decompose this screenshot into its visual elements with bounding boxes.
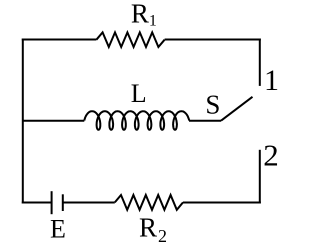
resistor R2 [115,195,183,210]
svg-text:R1: R1 [131,0,157,29]
svg-text:R2: R2 [139,213,167,247]
wire left vertical [22,39,24,204]
wire top left segment [22,39,97,41]
resistor R1 [96,32,164,47]
svg-text:2: 2 [263,137,279,172]
inductor L [84,111,189,130]
wire bottom right segment [183,202,261,204]
battery E plate long [51,191,53,214]
wire bottom left segment [22,202,52,204]
svg-text:L: L [131,79,147,108]
svg-text:S: S [205,89,220,119]
wire middle left segment [23,120,85,122]
wire top right segment [165,39,261,41]
wire right vertical to terminal 1 [259,39,261,86]
wire right vertical from terminal 2 [259,150,261,204]
svg-text:E: E [50,214,66,243]
svg-text:1: 1 [264,64,279,97]
switch S blade [221,97,253,121]
wire inductor to switch pivot [189,120,221,122]
battery E plate short [62,194,64,211]
wire battery to R2 [63,202,115,204]
